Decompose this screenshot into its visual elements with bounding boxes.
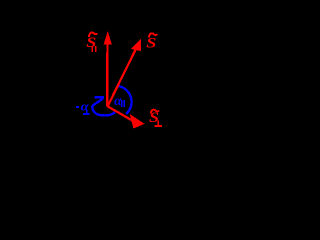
svg-text:S: S bbox=[146, 34, 156, 51]
svg-text:S: S bbox=[86, 34, 96, 51]
svg-text:α: α bbox=[81, 100, 90, 114]
